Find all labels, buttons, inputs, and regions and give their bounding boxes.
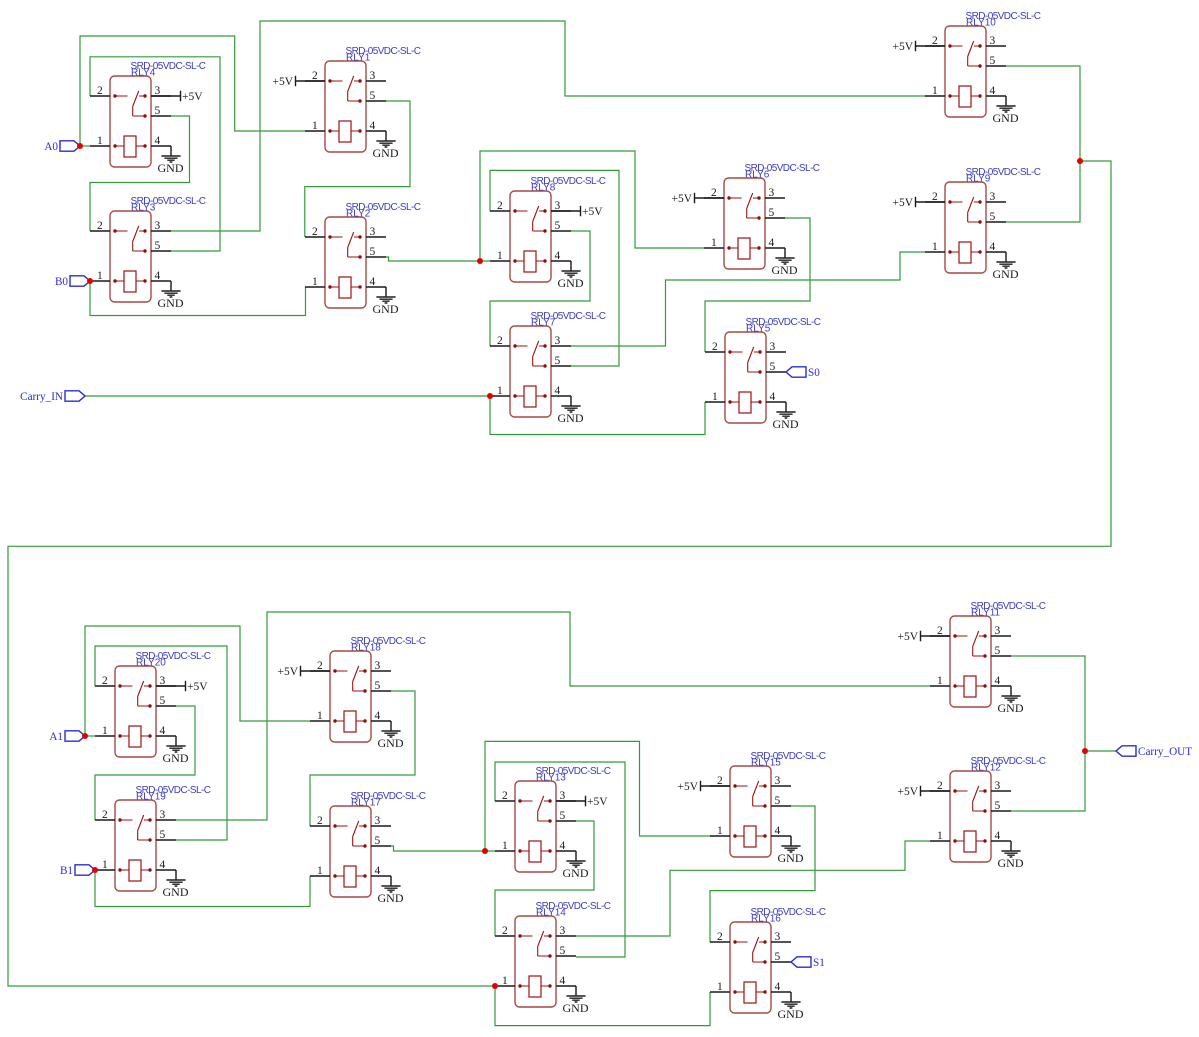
svg-text:+5V: +5V	[671, 193, 692, 205]
svg-text:4: 4	[770, 391, 776, 403]
svg-text:GND: GND	[158, 161, 184, 175]
wire RLY17 pin 5 to RLY13 pin 1	[391, 846, 495, 851]
svg-text:4: 4	[995, 830, 1001, 842]
svg-text:3: 3	[370, 226, 376, 238]
svg-text:5: 5	[995, 645, 1001, 657]
wire RLY20 pin 5 to RLY19 pin 2	[95, 706, 195, 820]
svg-text:3: 3	[995, 625, 1001, 637]
port A0	[44, 141, 80, 153]
svg-text:RLY8: RLY8	[531, 183, 556, 194]
ground at RLY10 pin 4	[993, 96, 1019, 125]
wire RLY3 pin 3 to RLY10 pin 1	[171, 21, 925, 231]
svg-text:1: 1	[502, 975, 508, 987]
svg-text:4: 4	[375, 865, 381, 877]
svg-text:RLY16: RLY16	[751, 914, 781, 925]
svg-text:3: 3	[375, 660, 381, 672]
svg-text:5: 5	[770, 361, 776, 373]
svg-text:GND: GND	[373, 146, 399, 160]
ground at RLY12 pin 4	[998, 841, 1024, 870]
svg-text:1: 1	[717, 981, 723, 993]
svg-text:GND: GND	[378, 891, 404, 905]
svg-text:+5V: +5V	[897, 631, 918, 643]
svg-text:3: 3	[155, 220, 161, 232]
junction at Carry_IN and RLY7 pin 1	[487, 393, 493, 399]
port S0	[786, 367, 820, 379]
ground at RLY16 pin 4	[778, 992, 804, 1021]
ground at RLY8 pin 4	[558, 261, 584, 290]
svg-text:2: 2	[932, 35, 938, 47]
relay RLY7 (SRD-05VDC-SL-C)	[490, 311, 606, 417]
svg-text:RLY11: RLY11	[971, 608, 1001, 619]
svg-text:2: 2	[717, 931, 723, 943]
svg-text:+5V: +5V	[182, 91, 203, 103]
svg-text:S1: S1	[813, 957, 825, 969]
wire A0 to RLY4 pin 1	[80, 145, 90, 147]
svg-text:1: 1	[497, 250, 503, 262]
ground at RLY11 pin 4	[998, 686, 1024, 715]
wire B0 to RLY2 pin 1	[90, 281, 306, 316]
svg-text:1: 1	[711, 237, 717, 249]
svg-text:GND: GND	[993, 111, 1019, 125]
ground at RLY4 pin 4	[158, 146, 184, 175]
svg-text:GND: GND	[378, 736, 404, 750]
svg-text:RLY20: RLY20	[136, 658, 166, 669]
wire RLY11 pin 5 to RLY12 pin 5	[1011, 656, 1085, 811]
svg-text:5: 5	[990, 55, 996, 67]
svg-text:4: 4	[990, 241, 996, 253]
svg-text:2: 2	[937, 780, 943, 792]
svg-text:+5V: +5V	[587, 796, 608, 808]
+5V supply at RLY10 pin 2	[892, 41, 945, 53]
svg-text:2: 2	[102, 675, 108, 687]
svg-text:RLY1: RLY1	[346, 53, 371, 64]
svg-text:2: 2	[711, 187, 717, 199]
svg-text:RLY7: RLY7	[531, 318, 556, 329]
svg-text:4: 4	[160, 725, 166, 737]
svg-text:4: 4	[555, 385, 561, 397]
svg-text:5: 5	[560, 810, 566, 822]
svg-text:3: 3	[990, 191, 996, 203]
svg-text:5: 5	[555, 220, 561, 232]
ground at RLY1 pin 4	[373, 131, 399, 160]
junction at B0	[87, 278, 93, 284]
svg-text:1: 1	[317, 710, 323, 722]
ground at RLY3 pin 4	[158, 281, 184, 310]
port A1	[49, 731, 85, 743]
ground at RLY7 pin 4	[558, 396, 584, 425]
svg-text:5: 5	[775, 951, 781, 963]
svg-text:1: 1	[717, 825, 723, 837]
wire RLY18 pin 5 to RLY17 pin 2	[310, 691, 415, 826]
svg-text:4: 4	[375, 710, 381, 722]
svg-text:GND: GND	[163, 885, 189, 899]
wire A1 to RLY18 pin 1	[85, 626, 310, 736]
+5V supply at RLY6 pin 2	[671, 193, 724, 205]
svg-text:B0: B0	[55, 276, 68, 288]
svg-text:+5V: +5V	[892, 197, 913, 209]
ground at RLY5 pin 4	[773, 402, 799, 431]
ground at RLY14 pin 4	[563, 986, 589, 1015]
wire Carry_IN to RLY7 pin 1	[85, 395, 490, 397]
svg-text:2: 2	[317, 660, 323, 672]
svg-text:GND: GND	[158, 296, 184, 310]
junction at Carry_OUT	[1082, 748, 1088, 754]
svg-text:3: 3	[770, 341, 776, 353]
wire RLY13 pin 2 to RLY14 pin 5	[495, 762, 625, 957]
svg-text:RLY6: RLY6	[745, 170, 770, 181]
wire RLY10 pin 5 to RLY9 pin 5	[1006, 66, 1080, 222]
relay RLY1 (SRD-05VDC-SL-C)	[305, 46, 421, 152]
svg-text:4: 4	[560, 975, 566, 987]
svg-text:3: 3	[375, 815, 381, 827]
svg-text:3: 3	[995, 780, 1001, 792]
relay RLY3 (SRD-05VDC-SL-C)	[90, 196, 206, 302]
svg-text:3: 3	[990, 35, 996, 47]
svg-text:2: 2	[497, 200, 503, 212]
svg-text:5: 5	[375, 835, 381, 847]
ground at RLY17 pin 4	[378, 876, 404, 905]
svg-text:2: 2	[712, 341, 718, 353]
svg-text:1: 1	[937, 830, 943, 842]
wire RLY14 pin 3 to RLY12 pin 1	[576, 841, 930, 936]
svg-text:3: 3	[160, 675, 166, 687]
svg-text:GND: GND	[778, 1007, 804, 1021]
svg-text:4: 4	[560, 840, 566, 852]
svg-text:RLY18: RLY18	[351, 643, 381, 654]
ground at RLY13 pin 4	[563, 851, 589, 880]
svg-text:5: 5	[990, 211, 996, 223]
svg-text:1: 1	[502, 840, 508, 852]
svg-text:RLY4: RLY4	[131, 68, 156, 79]
svg-text:3: 3	[155, 85, 161, 97]
svg-text:5: 5	[775, 795, 781, 807]
svg-text:4: 4	[155, 135, 161, 147]
wire junction to RLY6 pin 1	[480, 151, 704, 261]
junction at A1	[82, 733, 88, 739]
wire RLY19 pin 3 to RLY11 pin 1	[176, 612, 930, 820]
svg-text:2: 2	[317, 815, 323, 827]
wire RLY6 pin 5 to RLY5 pin 2	[705, 218, 810, 352]
wire RLY8 pin 2 to RLY7 pin 5	[490, 170, 619, 366]
wire RLY1 pin 5 to RLY2 pin 2	[305, 101, 410, 237]
svg-text:3: 3	[160, 809, 166, 821]
svg-text:3: 3	[560, 790, 566, 802]
wire RLY2 pin 5 to RLY8 pin 1	[386, 257, 490, 261]
wire Carry_IN junction to RLY5 pin 1	[490, 396, 705, 435]
svg-text:2: 2	[717, 775, 723, 787]
svg-text:3: 3	[775, 931, 781, 943]
svg-text:3: 3	[555, 200, 561, 212]
relay RLY10 (SRD-05VDC-SL-C)	[925, 11, 1041, 117]
junction at B1	[92, 867, 98, 873]
wire A0 to RLY1 pin 1	[80, 36, 305, 146]
+5V supply at RLY15 pin 2	[677, 781, 730, 793]
relay RLY19 (SRD-05VDC-SL-C)	[95, 785, 211, 891]
svg-text:B1: B1	[60, 865, 73, 877]
svg-text:RLY17: RLY17	[351, 798, 381, 809]
svg-text:GND: GND	[558, 411, 584, 425]
svg-text:1: 1	[97, 270, 103, 282]
svg-text:3: 3	[769, 187, 775, 199]
+5V supply at RLY20 pin 3	[156, 681, 208, 693]
svg-text:+5V: +5V	[892, 41, 913, 53]
+5V supply at RLY18 pin 2	[277, 666, 330, 678]
ground at RLY6 pin 4	[772, 248, 798, 277]
svg-text:2: 2	[932, 191, 938, 203]
svg-text:GND: GND	[998, 856, 1024, 870]
svg-text:5: 5	[155, 240, 161, 252]
svg-text:GND: GND	[163, 751, 189, 765]
svg-text:5: 5	[155, 105, 161, 117]
svg-text:+5V: +5V	[187, 681, 208, 693]
svg-text:1: 1	[712, 391, 718, 403]
wire RLY20 pin 2 to RLY19 pin 5	[95, 646, 227, 840]
svg-text:2: 2	[102, 809, 108, 821]
ground at RLY15 pin 4	[778, 836, 804, 865]
port Carry_IN	[20, 391, 85, 403]
+5V supply at RLY13 pin 3	[556, 796, 608, 808]
svg-text:5: 5	[555, 355, 561, 367]
junction RLY17 pin 5 net	[482, 848, 488, 854]
svg-text:GND: GND	[778, 851, 804, 865]
wire RLY15 pin 5 to RLY16 pin 2	[710, 806, 815, 942]
relay RLY4 (SRD-05VDC-SL-C)	[90, 61, 206, 167]
svg-text:RLY9: RLY9	[966, 174, 991, 185]
wire junction to RLY15 pin 1	[485, 741, 710, 851]
port B0	[55, 276, 90, 288]
svg-text:2: 2	[312, 70, 318, 82]
svg-text:GND: GND	[373, 302, 399, 316]
relay RLY6 (SRD-05VDC-SL-C)	[704, 163, 820, 269]
svg-text:3: 3	[370, 70, 376, 82]
svg-text:GND: GND	[772, 263, 798, 277]
svg-text:3: 3	[555, 335, 561, 347]
ground at RLY19 pin 4	[163, 870, 189, 899]
svg-text:RLY5: RLY5	[746, 324, 771, 335]
svg-text:1: 1	[102, 725, 108, 737]
svg-text:2: 2	[497, 335, 503, 347]
svg-text:RLY2: RLY2	[346, 209, 371, 220]
svg-text:S0: S0	[808, 367, 820, 379]
svg-text:Carry_IN: Carry_IN	[20, 391, 63, 403]
svg-text:5: 5	[375, 680, 381, 692]
+5V supply at RLY11 pin 2	[897, 631, 950, 643]
relay RLY18 (SRD-05VDC-SL-C)	[310, 636, 426, 742]
svg-text:5: 5	[160, 829, 166, 841]
ground at RLY18 pin 4	[378, 721, 404, 750]
svg-text:GND: GND	[998, 701, 1024, 715]
svg-text:2: 2	[502, 790, 508, 802]
svg-text:4: 4	[555, 250, 561, 262]
svg-text:1: 1	[312, 120, 318, 132]
port Carry_OUT	[1116, 746, 1192, 758]
ground at RLY9 pin 4	[993, 252, 1019, 281]
relay RLY9 (SRD-05VDC-SL-C)	[925, 167, 1041, 273]
relay RLY17 (SRD-05VDC-SL-C)	[310, 791, 426, 897]
relay RLY16 (SRD-05VDC-SL-C)	[710, 907, 826, 1013]
svg-text:GND: GND	[563, 1001, 589, 1015]
relay RLY15 (SRD-05VDC-SL-C)	[710, 751, 826, 857]
relay RLY8 (SRD-05VDC-SL-C)	[490, 176, 606, 282]
wire carry of stage 0 to RLY14 pin 1	[8, 161, 1111, 986]
svg-text:RLY14: RLY14	[536, 908, 566, 919]
+5V supply at RLY8 pin 3	[551, 206, 603, 218]
svg-text:2: 2	[97, 220, 103, 232]
svg-text:4: 4	[995, 675, 1001, 687]
svg-text:1: 1	[937, 675, 943, 687]
svg-text:3: 3	[775, 775, 781, 787]
wire A1 to RLY20 pin 1	[85, 735, 95, 737]
relay RLY11 (SRD-05VDC-SL-C)	[930, 601, 1046, 707]
svg-text:5: 5	[995, 800, 1001, 812]
svg-text:RLY19: RLY19	[136, 792, 166, 803]
wire RLY4 pin 2 to RLY3 pin 5	[90, 57, 220, 251]
junction at RLY14 pin 1	[492, 983, 498, 989]
svg-text:1: 1	[932, 85, 938, 97]
port B1	[60, 865, 95, 877]
svg-text:+5V: +5V	[272, 76, 293, 88]
svg-text:1: 1	[497, 385, 503, 397]
svg-text:5: 5	[370, 90, 376, 102]
relay RLY20 (SRD-05VDC-SL-C)	[95, 651, 211, 757]
relay RLY14 (SRD-05VDC-SL-C)	[495, 901, 611, 1007]
svg-text:A1: A1	[49, 731, 63, 743]
svg-text:RLY13: RLY13	[536, 773, 566, 784]
+5V supply at RLY4 pin 3	[151, 91, 203, 103]
port S1	[791, 957, 825, 969]
svg-text:4: 4	[775, 825, 781, 837]
svg-text:5: 5	[560, 945, 566, 957]
svg-text:1: 1	[97, 135, 103, 147]
ground at RLY2 pin 4	[373, 287, 399, 316]
junction at A0	[77, 143, 83, 149]
relay RLY2 (SRD-05VDC-SL-C)	[305, 202, 421, 308]
svg-text:1: 1	[932, 241, 938, 253]
svg-text:RLY3: RLY3	[131, 203, 156, 214]
svg-text:RLY10: RLY10	[966, 18, 996, 29]
wire RLY14 junction to RLY16 pin 1	[495, 986, 710, 1026]
svg-text:RLY12: RLY12	[971, 763, 1001, 774]
svg-text:4: 4	[775, 981, 781, 993]
svg-text:5: 5	[769, 207, 775, 219]
svg-text:5: 5	[160, 695, 166, 707]
junction carry of stage 0	[1077, 158, 1083, 164]
svg-text:GND: GND	[993, 267, 1019, 281]
svg-text:RLY15: RLY15	[751, 758, 781, 769]
svg-text:GND: GND	[773, 417, 799, 431]
ground at RLY20 pin 4	[163, 736, 189, 765]
svg-text:GND: GND	[558, 276, 584, 290]
svg-text:4: 4	[990, 85, 996, 97]
relay RLY12 (SRD-05VDC-SL-C)	[930, 756, 1046, 862]
svg-text:2: 2	[312, 226, 318, 238]
wire RLY13 pin 5 to RLY14 pin 2	[495, 821, 594, 936]
svg-text:+5V: +5V	[277, 666, 298, 678]
wire RLY7 pin 3 to RLY9 pin 1	[571, 252, 925, 346]
svg-text:+5V: +5V	[897, 786, 918, 798]
relay RLY13 (SRD-05VDC-SL-C)	[495, 766, 611, 872]
svg-text:4: 4	[370, 120, 376, 132]
wire B1 to RLY17 pin 1	[95, 870, 310, 907]
+5V supply at RLY1 pin 2	[272, 76, 325, 88]
relay RLY5 (SRD-05VDC-SL-C)	[705, 317, 821, 423]
svg-text:2: 2	[502, 925, 508, 937]
svg-text:1: 1	[317, 865, 323, 877]
svg-text:2: 2	[97, 85, 103, 97]
svg-text:4: 4	[370, 276, 376, 288]
svg-text:GND: GND	[563, 866, 589, 880]
+5V supply at RLY9 pin 2	[892, 197, 945, 209]
svg-text:1: 1	[102, 859, 108, 871]
svg-text:Carry_OUT: Carry_OUT	[1138, 746, 1192, 758]
wire RLY4 pin 5 to RLY3 pin 2	[90, 116, 190, 231]
svg-text:A0: A0	[44, 141, 58, 153]
svg-text:5: 5	[370, 246, 376, 258]
svg-text:+5V: +5V	[677, 781, 698, 793]
junction RLY2 pin 5 net	[477, 258, 483, 264]
svg-text:3: 3	[560, 925, 566, 937]
+5V supply at RLY12 pin 2	[897, 786, 950, 798]
svg-text:2: 2	[937, 625, 943, 637]
svg-text:+5V: +5V	[582, 206, 603, 218]
wire junction to Carry_OUT	[1085, 750, 1116, 752]
svg-text:4: 4	[160, 859, 166, 871]
svg-text:4: 4	[155, 270, 161, 282]
svg-text:1: 1	[312, 276, 318, 288]
wire RLY8 pin 5 to RLY7 pin 2	[490, 231, 590, 346]
svg-text:4: 4	[769, 237, 775, 249]
